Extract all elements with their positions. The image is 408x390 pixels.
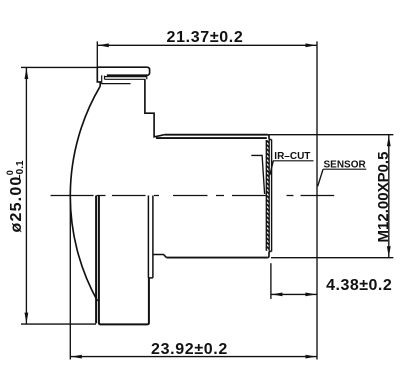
centerline <box>51 195 335 197</box>
svg-text:0: 0 <box>5 170 15 175</box>
svg-text:−0.1: −0.1 <box>15 160 26 180</box>
thread root top <box>156 137 267 139</box>
thread end stub top <box>268 135 272 140</box>
thread crest bottom <box>167 257 268 259</box>
svg-text:21.37±0.2: 21.37±0.2 <box>167 29 244 46</box>
wire: sensor plane extension line <box>316 41 318 359</box>
barrel left wall inner and bottom <box>99 196 149 325</box>
IR filter strip hatched <box>266 140 269 251</box>
wire: extension line left of dim 21.37 <box>96 41 98 67</box>
wire: dia25 extension top <box>21 66 97 68</box>
svg-text:ø25.00: ø25.00 <box>8 175 25 232</box>
wire: dia25 extension bottom <box>21 323 96 325</box>
wire: dimension line 21.37 <box>97 44 317 46</box>
thread root stub bottom <box>153 255 166 258</box>
barrel step profile <box>145 79 165 137</box>
wire: M12 extension bottom <box>271 257 393 259</box>
lens front surface arc <box>70 86 100 301</box>
svg-text:M12.00XP0.5: M12.00XP0.5 <box>375 152 392 243</box>
wire: dimension line 4.38 <box>271 293 317 295</box>
retainer ring bar <box>102 75 147 83</box>
thread crest top <box>165 134 268 136</box>
bore wall pair <box>148 196 153 278</box>
svg-text:4.38±0.2: 4.38±0.2 <box>326 277 392 294</box>
barrel left wall outer <box>95 196 97 324</box>
wire: extension line 4.38 <box>270 263 272 299</box>
wire: leader to rear lens surface <box>251 155 264 194</box>
wire: extension line 23.92 left <box>69 196 71 360</box>
barrel end face <box>271 140 273 252</box>
wire: dimension line M12 <box>388 135 390 258</box>
svg-text:23.92±0.2: 23.92±0.2 <box>151 341 228 358</box>
wire: dimension line dia25 <box>25 67 27 324</box>
lens front flange outline <box>97 67 149 86</box>
wire: dimension line 23.92 <box>70 356 317 358</box>
wire: M12 extension top <box>269 134 393 136</box>
thread end stub bottom <box>268 251 272 257</box>
